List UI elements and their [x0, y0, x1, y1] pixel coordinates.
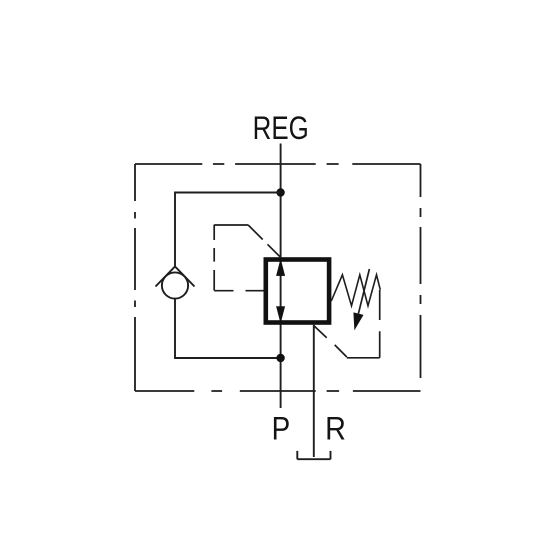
check valve seat (V)	[156, 267, 195, 287]
valve body (pressure regulator envelope)	[266, 260, 329, 323]
pilot line left (dashed sensing loop)	[214, 225, 281, 291]
adjustment arrow shaft	[358, 269, 369, 314]
enclosure border (dash-dot), left side	[134, 164, 136, 391]
junction dot on P rail	[276, 354, 284, 362]
svg-text:R: R	[325, 411, 346, 447]
flow arrow down (inside valve)	[277, 307, 285, 323]
wire top rail (junction to check valve branch)	[175, 193, 281, 267]
wire R line (valve to tank)	[313, 325, 315, 457]
wire REG/P vertical line	[280, 144, 282, 409]
tank symbol	[297, 451, 330, 459]
enclosure border (dash-dot), bottom side	[135, 390, 421, 392]
svg-text:REG: REG	[253, 112, 309, 147]
pilot line right (dashed, valve outlet to spring end)	[314, 290, 380, 358]
adjustment arrow head	[353, 312, 363, 330]
enclosure border (dash-dot), top side	[135, 163, 421, 165]
check valve ball	[162, 272, 188, 298]
enclosure border (dash-dot), right side	[420, 164, 422, 378]
svg-text:P: P	[272, 412, 291, 447]
wire check valve lower lead	[175, 299, 281, 358]
flow arrow up (inside valve)	[277, 260, 285, 276]
junction dot on REG rail	[276, 188, 284, 196]
spring (adjustable)	[331, 275, 380, 306]
